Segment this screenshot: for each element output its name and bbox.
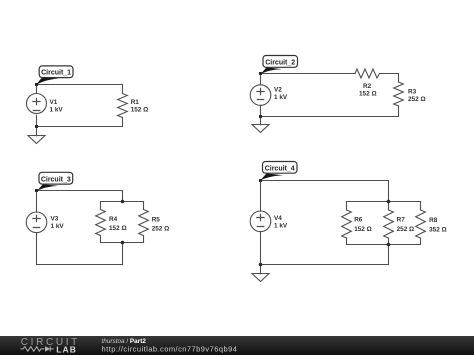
- svg-text:Circuit_1: Circuit_1: [41, 70, 71, 77]
- svg-text:1 kV: 1 kV: [274, 94, 288, 101]
- svg-text:252 Ω: 252 Ω: [408, 96, 426, 103]
- svg-text:LAB: LAB: [56, 344, 77, 354]
- svg-text:R4: R4: [109, 216, 118, 223]
- svg-text:1 kV: 1 kV: [274, 223, 288, 230]
- svg-text:152 Ω: 152 Ω: [109, 225, 127, 232]
- svg-text:R5: R5: [152, 216, 161, 223]
- svg-text:152 Ω: 152 Ω: [354, 226, 372, 233]
- svg-text:V2: V2: [274, 87, 282, 94]
- svg-text:352 Ω: 352 Ω: [429, 227, 447, 234]
- svg-text:R6: R6: [354, 217, 363, 224]
- svg-text:http://circuitlab.com/cn77b9v7: http://circuitlab.com/cn77b9v76qb94: [102, 344, 238, 353]
- svg-text:R1: R1: [131, 99, 140, 106]
- svg-text:Circuit_2: Circuit_2: [265, 60, 295, 67]
- svg-text:R3: R3: [408, 88, 417, 95]
- svg-text:152 Ω: 152 Ω: [359, 90, 377, 97]
- svg-text:1 kV: 1 kV: [51, 223, 65, 230]
- svg-text:1 kV: 1 kV: [50, 106, 64, 113]
- svg-text:R7: R7: [397, 217, 406, 224]
- svg-text:252 Ω: 252 Ω: [397, 226, 415, 233]
- svg-text:V3: V3: [51, 216, 59, 223]
- svg-text:R2: R2: [363, 83, 372, 90]
- svg-text:Circuit_3: Circuit_3: [41, 176, 71, 183]
- svg-text:252 Ω: 252 Ω: [152, 226, 170, 233]
- svg-text:R8: R8: [429, 217, 438, 224]
- svg-text:V4: V4: [274, 215, 282, 222]
- svg-text:152 Ω: 152 Ω: [131, 107, 149, 114]
- svg-text:V1: V1: [50, 99, 58, 106]
- svg-text:Circuit_4: Circuit_4: [265, 166, 295, 173]
